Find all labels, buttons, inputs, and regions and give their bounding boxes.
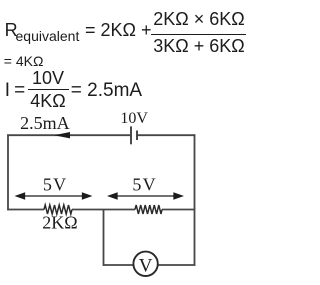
equation line 3: I = 10V/4KOhm = 2.5mA — [5, 81, 10, 100]
svg-text:2KΩ: 2KΩ — [42, 213, 77, 233]
current arrow 2.5mA pointing left — [54, 132, 70, 138]
voltage arrow 5V right (double headed) — [109, 193, 182, 199]
equation line 2: = 4KOhm — [4, 54, 44, 68]
wire right side — [194, 134, 196, 265]
svg-text:5V: 5V — [43, 175, 67, 195]
battery B1 long plate — [130, 126, 132, 144]
wire left side — [7, 134, 9, 210]
fraction (2KOhm x 6KOhm)/(3KOhm + 6KOhm) — [153, 10, 246, 28]
voltmeter V circle — [133, 252, 157, 276]
wire middle right segment — [162, 209, 195, 211]
wire middle vertical to voltmeter loop — [103, 210, 105, 266]
circuit schematic — [0, 0, 249, 285]
battery B1 short plate — [136, 131, 138, 141]
resistor R2 zigzag — [135, 205, 162, 214]
wire top from left corner to battery — [7, 134, 130, 136]
wire bottom left of voltmeter — [103, 264, 134, 266]
svg-text:5V: 5V — [132, 175, 156, 195]
wire middle center segment — [72, 209, 135, 211]
equation line 1: R_equivalent = 2KOhm + fraction — [5, 21, 18, 39]
wire top from battery to right corner — [137, 134, 195, 136]
voltage arrow 5V left (double headed) — [17, 193, 91, 199]
wire middle left segment — [7, 209, 44, 211]
resistor R1 2KOhm zigzag — [44, 205, 72, 214]
svg-text:2.5mA: 2.5mA — [20, 113, 70, 133]
svg-text:10V: 10V — [120, 110, 148, 127]
wire bottom right of voltmeter — [158, 264, 196, 266]
svg-text:V: V — [139, 255, 153, 276]
